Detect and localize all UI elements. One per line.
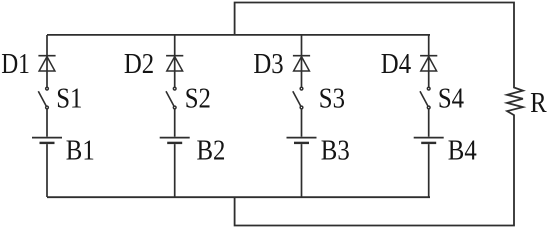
svg-text:R: R xyxy=(530,86,547,118)
svg-text:S3: S3 xyxy=(319,82,345,114)
svg-text:B3: B3 xyxy=(321,134,350,166)
svg-text:B1: B1 xyxy=(66,134,95,166)
svg-text:D2: D2 xyxy=(124,47,154,79)
svg-text:D1: D1 xyxy=(1,46,30,79)
svg-text:D3: D3 xyxy=(253,47,283,79)
svg-text:D4: D4 xyxy=(381,47,412,79)
svg-text:B4: B4 xyxy=(448,134,477,166)
svg-text:S2: S2 xyxy=(185,82,211,114)
svg-text:S4: S4 xyxy=(438,82,465,114)
svg-text:S1: S1 xyxy=(56,82,82,114)
svg-text:B2: B2 xyxy=(197,134,226,166)
